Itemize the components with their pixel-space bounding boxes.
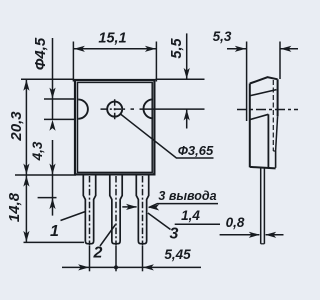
ext line at pin tips left	[24, 241, 85, 243]
svg-text:3 вывода: 3 вывода	[158, 189, 216, 203]
svg-text:15,1: 15,1	[98, 30, 126, 46]
top ext line right of package	[156, 78, 205, 80]
dim phi4,5 / 4,3 shafts	[52, 38, 54, 99]
svg-text:Ф4,5: Ф4,5	[32, 37, 49, 70]
hole vertical center line	[114, 99, 116, 119]
underline 1,4	[175, 223, 220, 225]
right notch	[144, 99, 154, 118]
arrowheads phi4,5 (outside)	[49, 88, 55, 99]
pin 2 outline	[110, 175, 122, 244]
arrowheads 5,3 (outside)	[235, 46, 246, 52]
side view top slant	[250, 77, 278, 83]
dim 0,8 lines	[220, 234, 260, 236]
side view hidden dashed line	[272, 80, 274, 151]
pin 2 center line	[115, 176, 117, 246]
mounting hole	[107, 102, 122, 117]
pin 3 center line	[142, 176, 144, 246]
leader label 2	[100, 225, 116, 247]
5,45 ext ticks	[89, 246, 91, 271]
dim 5,3 ext lines	[246, 42, 248, 122]
arrowheads 15,1 (inside, pointing out)	[74, 46, 85, 52]
arrowheads 5,45 (outside)	[78, 264, 89, 270]
dim 20,3 line	[25, 79, 27, 175]
svg-text:1: 1	[50, 223, 59, 240]
svg-text:14,8: 14,8	[6, 192, 23, 222]
side view bottom edge	[250, 167, 276, 169]
main horizontal center line	[101, 108, 127, 110]
dim phi4,5 ext lines	[44, 98, 76, 100]
svg-text:1,4: 1,4	[181, 208, 200, 223]
side view inner slant 1	[249, 90, 276, 96]
side view inner slant 2	[250, 114, 269, 119]
svg-text:5,45: 5,45	[164, 247, 191, 262]
side view inner vertical	[267, 114, 269, 168]
dim 14,8 line	[25, 175, 27, 242]
svg-text:5,5: 5,5	[169, 37, 185, 58]
svg-text:20,3: 20,3	[8, 111, 25, 142]
leader 3 vyvoda + right arrow	[149, 204, 218, 208]
side view center line	[237, 109, 298, 111]
arrowheads 5,5 (outside)	[184, 68, 190, 79]
package body outer outline	[75, 80, 154, 174]
svg-text:4,3: 4,3	[30, 141, 45, 161]
svg-text:Ф3,65: Ф3,65	[178, 143, 214, 158]
pin 1 center line	[89, 176, 91, 246]
leader label 1	[61, 212, 86, 221]
svg-text:2: 2	[93, 245, 103, 262]
pin 3 outline	[136, 175, 148, 244]
dim 5,5 shaft	[186, 33, 188, 79]
arrowheads 14,8	[23, 176, 29, 187]
underline phi3,65 + leader	[120, 114, 214, 159]
svg-text:0,8: 0,8	[226, 215, 245, 230]
dim 5,45 line	[62, 266, 201, 268]
svg-text:3: 3	[170, 226, 179, 243]
dim 15,1 extension lines	[72, 42, 74, 82]
arrowheads 1,4	[126, 204, 137, 210]
arrowhead 4,3 at shoulder line	[49, 198, 55, 209]
pin 1 outline	[83, 175, 95, 244]
leader label 3	[148, 213, 171, 230]
side view right edge	[277, 79, 279, 116]
arrowhead 4,3 bottom	[49, 164, 55, 175]
package body inner outline	[78, 82, 153, 172]
side view right lower slant	[276, 116, 278, 151]
dim 1,4 left shaft	[122, 206, 136, 208]
side view left edge	[249, 84, 251, 168]
left notch	[78, 99, 88, 118]
ext line at pin shoulder	[38, 197, 57, 199]
dim 5,3 shafts	[227, 48, 246, 50]
bottom ext line left of package	[15, 174, 76, 176]
arrowheads 20,3	[23, 80, 29, 91]
side view lead	[260, 169, 262, 244]
dim 15,1 line	[73, 48, 156, 50]
svg-text:5,3: 5,3	[213, 29, 232, 44]
arrowheads 0,8 (outside)	[249, 232, 260, 238]
top ext line left of package	[21, 78, 74, 80]
